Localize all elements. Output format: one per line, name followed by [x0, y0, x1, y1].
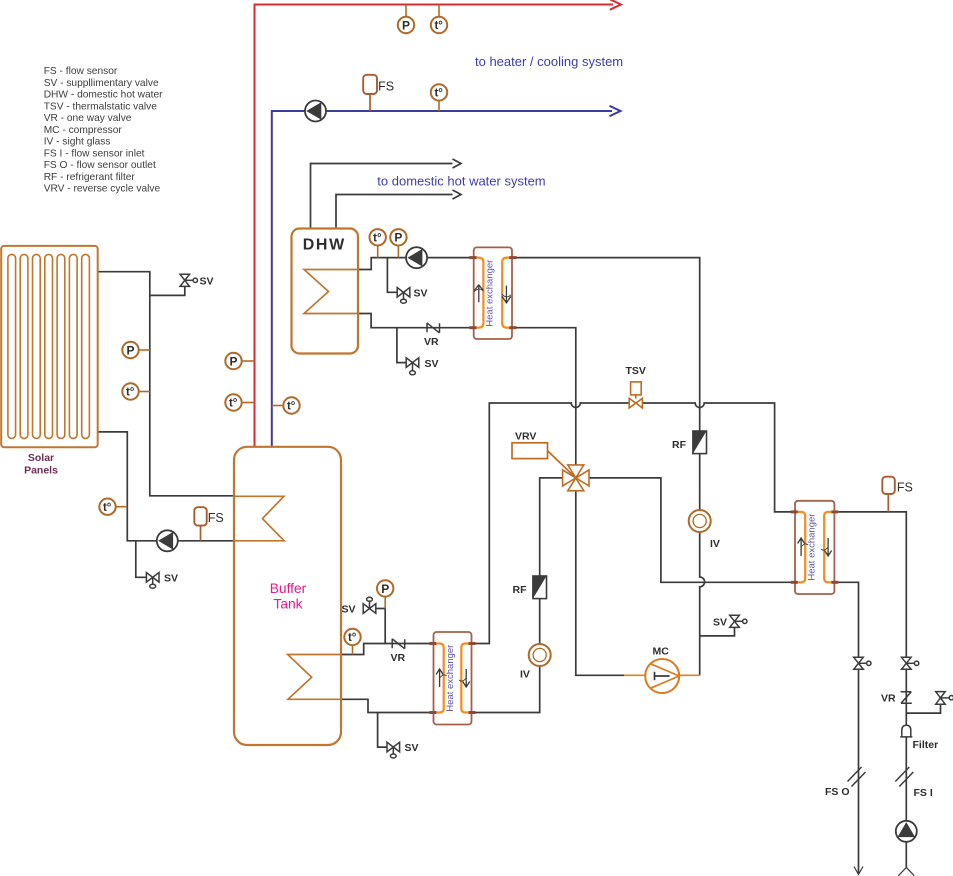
svg-text:FS: FS: [378, 80, 394, 94]
svg-text:VRV: VRV: [515, 431, 536, 443]
svg-text:VR - one way valve: VR - one way valve: [44, 113, 132, 124]
wire buffer drain SV branch: [378, 713, 387, 748]
wire DHW tank lower line to HX1: [358, 314, 474, 328]
wire 4-way valve bottom to compressor suction: [576, 491, 624, 676]
svg-text:t°: t°: [434, 20, 443, 32]
TSV thermostatic valve: [629, 382, 642, 408]
wire DHW top pipe B with arrow: [336, 195, 453, 229]
flow sensor FS (right): [882, 477, 913, 512]
flow sensor inlet FS I break: [895, 767, 913, 787]
DHW supplementary valve SV: [397, 288, 410, 304]
gauge P on red line: [398, 5, 414, 34]
svg-text:SV: SV: [425, 358, 439, 370]
flow sensor FS on blue line: [363, 75, 394, 111]
svg-text:Filter: Filter: [913, 739, 939, 751]
svg-text:t°: t°: [229, 398, 238, 410]
DHW pump: [406, 247, 427, 268]
svg-text:P: P: [381, 582, 389, 596]
svg-text:FS O - flow sensor outlet: FS O - flow sensor outlet: [44, 160, 156, 171]
pump on blue line: [305, 101, 326, 122]
svg-text:Heat exchanger: Heat exchanger: [807, 514, 818, 581]
wire 4-way valve left to RF2/IV2 chain to HX2 lower right: [540, 478, 563, 576]
svg-text:SV: SV: [414, 288, 428, 300]
wire right column bottom arrow (up chevron): [898, 867, 914, 875]
wire TSV line: HX2 right top up, across (dips at 575.8 and 699.7), to HX3 top left: [472, 403, 796, 644]
DHW tank: [292, 229, 359, 354]
svg-text:MC: MC: [653, 646, 670, 658]
svg-text:FS O: FS O: [825, 786, 850, 798]
flow sensor outlet FS O break: [848, 767, 866, 787]
gauge t DHW line: [370, 229, 386, 258]
refrigerant filter RF1: [693, 431, 707, 454]
one-way valve VR (buffer): [392, 639, 405, 649]
wire HX3 bottom right to FS O column with down arrow: [838, 582, 858, 873]
svg-text:MC - compressor: MC - compressor: [44, 125, 123, 136]
gauge t on blue riser: [272, 397, 300, 413]
wire solar drain SV branch: [136, 541, 147, 578]
svg-text:FS: FS: [897, 480, 913, 494]
svg-text:IV: IV: [710, 538, 720, 550]
compressor relief valve SV: [730, 615, 747, 627]
DHW tank coil: [304, 270, 358, 314]
wires (dark pipes): [98, 159, 941, 876]
wire HX1 lower right down to 4-way valve top: [512, 328, 576, 465]
DHW drain valve SV: [406, 358, 419, 375]
wire DHW top pipe A with arrow: [311, 164, 453, 229]
svg-text:RF - refrigerant filter: RF - refrigerant filter: [44, 172, 136, 183]
svg-text:IV: IV: [520, 669, 530, 681]
wire 4-way valve right to HX3 lower left: [589, 478, 795, 582]
svg-text:IV - sight glass: IV - sight glass: [44, 137, 111, 148]
heat exchanger HX1 (DHW circuit): [469, 247, 516, 339]
svg-text:SV: SV: [342, 604, 356, 616]
wire buffer SV/P branch: [376, 609, 385, 644]
wire HX1 upper right down to compressor outlet (jumps 582 line): [512, 258, 705, 676]
svg-text:VR: VR: [881, 693, 896, 705]
blue return line: [272, 106, 621, 447]
svg-text:to domestic hot water system: to domestic hot water system: [377, 174, 545, 189]
one-way valve VR (right column, vertical): [901, 692, 912, 704]
svg-text:Buffer: Buffer: [270, 581, 307, 596]
wire solar panel top to buffer coil top: [98, 272, 235, 496]
wire solar SV branch: [150, 286, 185, 295]
VRV reverse cycle valve actuator: [512, 443, 548, 459]
svg-text:t°: t°: [348, 632, 357, 644]
buffer vent valve SV: [363, 597, 376, 613]
svg-text:VR: VR: [424, 336, 439, 348]
wire compressor SV branch: [700, 627, 735, 636]
heat exchanger HX2 (buffer circuit): [429, 632, 475, 725]
svg-text:P: P: [229, 354, 237, 368]
gauge P on solar riser: [122, 342, 150, 358]
svg-text:Tank: Tank: [273, 597, 302, 612]
gauge t on red riser: [225, 394, 254, 410]
gauge P DHW line: [390, 229, 406, 258]
buffer tank: [234, 447, 341, 745]
red supply line to heater/cooling: [255, 0, 621, 447]
svg-text:RF: RF: [513, 584, 528, 596]
svg-text:Heat exchanger: Heat exchanger: [485, 260, 496, 327]
sight glass IV1: [689, 510, 711, 532]
svg-text:t°: t°: [373, 233, 382, 245]
wire solar panel bottom to buffer coil bottom: [98, 432, 235, 541]
svg-text:DHW - domestic hot water: DHW - domestic hot water: [44, 90, 163, 101]
gauge t on solar riser: [122, 383, 150, 399]
buffer drain valve SV: [387, 742, 400, 758]
gauge t on solar return: [99, 499, 127, 515]
right column pump (upward): [896, 821, 917, 842]
wire buffer lower pipe to HX2 left bottom: [341, 699, 434, 712]
gauge P on red riser: [225, 353, 254, 369]
refrigerant filter RF2: [533, 576, 547, 599]
4-way reversing valve: [563, 465, 589, 491]
legend text block: [44, 66, 163, 195]
compressor MC: [645, 659, 679, 693]
wire DHW drain SV branch: [397, 328, 406, 363]
svg-text:t°: t°: [434, 88, 443, 100]
side drain valve (right branch): [936, 692, 953, 705]
wire buffer upper pipe through VR to HX2 left top: [341, 644, 434, 655]
wire right column branch to side valve: [906, 704, 940, 713]
gauge t on red line: [431, 5, 447, 34]
svg-text:RF: RF: [672, 439, 687, 451]
svg-text:SV: SV: [200, 276, 214, 288]
svg-text:t°: t°: [103, 502, 112, 514]
svg-text:t°: t°: [126, 387, 135, 399]
solar panel collector: [1, 246, 98, 447]
svg-text:Panels: Panels: [24, 465, 58, 477]
shutoff valve on right column: [902, 657, 919, 669]
svg-text:VR: VR: [391, 652, 406, 664]
svg-text:Heat exchanger: Heat exchanger: [445, 645, 456, 712]
svg-text:P: P: [394, 231, 402, 245]
compressor suction/discharge orange pipe: [624, 674, 700, 676]
buffer gauge P: [377, 580, 393, 608]
svg-text:FS I - flow sensor inlet: FS I - flow sensor inlet: [44, 148, 145, 159]
solar supplementary valve SV (top): [180, 274, 198, 286]
svg-text:VRV - reverse cycle valve: VRV - reverse cycle valve: [44, 184, 161, 195]
svg-text:SV: SV: [405, 742, 419, 754]
one-way valve VR (DHW): [427, 323, 440, 333]
shutoff valve on FS O column: [854, 657, 871, 669]
solar flow sensor FS: [194, 507, 223, 541]
buffer tank upper coil: [234, 496, 284, 541]
svg-text:Solar: Solar: [28, 452, 54, 464]
svg-text:SV: SV: [713, 617, 727, 629]
heat exchanger HX3 (right): [791, 501, 839, 594]
wire HX3 top right to right column down to pump arrow: [838, 512, 906, 868]
buffer gauge t: [344, 629, 360, 655]
solar drain valve SV: [146, 573, 159, 589]
gauge t on blue line: [431, 84, 447, 111]
svg-text:SV: SV: [164, 573, 178, 585]
svg-text:TSV - thermalstatic valve: TSV - thermalstatic valve: [44, 101, 158, 112]
svg-text:P: P: [126, 343, 134, 357]
svg-text:TSV: TSV: [626, 365, 646, 377]
svg-text:P: P: [402, 18, 410, 32]
svg-text:SV - suppllimentary valve: SV - suppllimentary valve: [44, 78, 159, 89]
filter symbol: [900, 725, 912, 737]
svg-text:to heater / cooling system: to heater / cooling system: [475, 54, 623, 69]
svg-text:t°: t°: [287, 401, 296, 413]
svg-text:FS - flow sensor: FS - flow sensor: [44, 66, 118, 77]
wire DHW SV branch: [387, 258, 397, 293]
svg-text:FS I: FS I: [914, 787, 933, 799]
wire DHW tank upper outlet to HX1: [358, 258, 474, 270]
solar pump: [157, 530, 178, 551]
sight glass IV2: [529, 644, 551, 666]
buffer tank lower coil: [288, 655, 341, 700]
svg-text:FS: FS: [208, 511, 224, 525]
svg-text:DHW: DHW: [303, 236, 346, 253]
